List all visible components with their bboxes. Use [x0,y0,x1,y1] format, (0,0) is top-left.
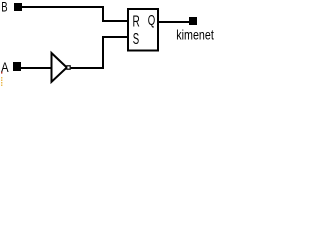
wire into R input [102,20,127,22]
wire B vertical down [102,6,104,22]
SR latch U1 box [128,9,158,51]
svg-text:B: B [1,0,7,15]
svg-text:Q: Q [148,12,156,29]
svg-text:S: S [133,29,140,47]
inverter U2 triangle [52,53,67,82]
terminal A [13,62,21,71]
wire inverter output [71,67,104,69]
terminal B [14,3,22,11]
wire B horizontal [22,6,104,8]
svg-text:kimenet: kimenet [176,27,214,43]
wire into S input [102,36,128,38]
wire A to inverter [21,67,51,69]
wire vertical up to S [102,37,104,69]
svg-text:R: R [132,12,140,30]
wire Q output [159,21,189,23]
cursor dots artifact [1,72,2,86]
inversion bubble (square) [67,66,70,69]
terminal kimenet [189,17,197,25]
